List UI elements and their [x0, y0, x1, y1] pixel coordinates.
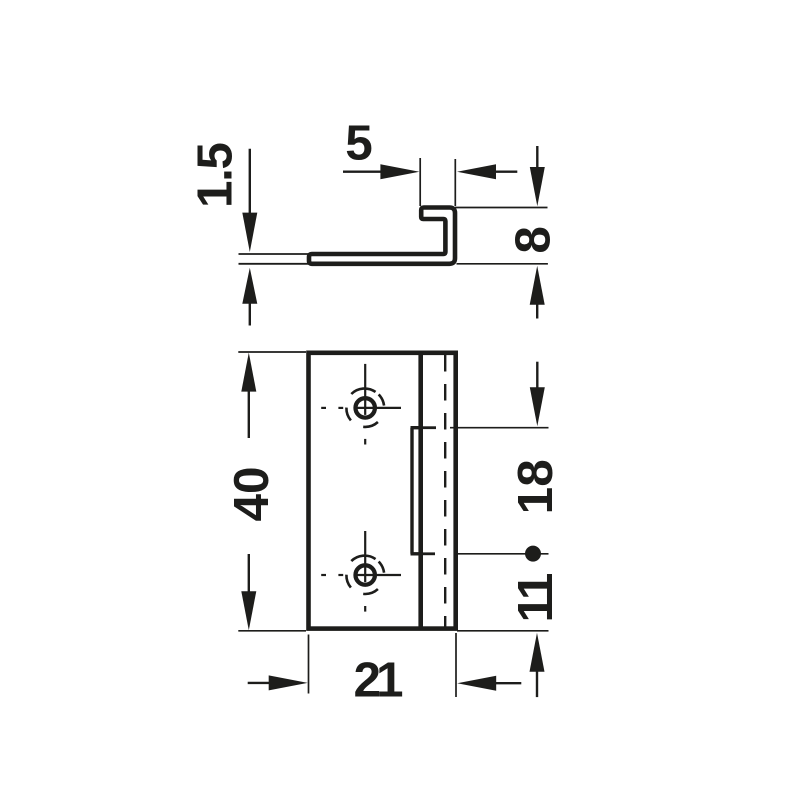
- hole H1 horizontal centerline: [321, 407, 401, 409]
- dimension 11 bottom extension line: [457, 630, 549, 632]
- dimension 5 left arrowhead: [380, 164, 419, 179]
- hook tab left edge: [410, 428, 413, 554]
- dimension 21 left shaft: [248, 682, 270, 684]
- dimension 18 top extension line: [422, 426, 437, 429]
- chain dimension dot: [525, 546, 541, 562]
- bend line (vertical thick): [418, 353, 423, 629]
- svg-text:1.5: 1.5: [188, 143, 243, 208]
- hole H1 countersink dashed arcs: [346, 389, 384, 427]
- svg-text:40: 40: [224, 466, 279, 521]
- svg-text:5: 5: [345, 116, 373, 171]
- dimension 5 left extension line: [419, 158, 421, 206]
- dimension 11 lower shaft: [536, 671, 538, 697]
- dimension 8 upper arrowhead: [530, 167, 545, 206]
- hole H1 vertical centerline: [364, 364, 366, 445]
- hook tab bottom edge: [411, 552, 422, 555]
- dimension 40 top shaft: [248, 391, 250, 438]
- dimension 40 top arrowhead: [241, 353, 256, 392]
- dimension 21 left arrowhead: [269, 675, 308, 690]
- dimension 8 bottom extension line: [457, 263, 548, 265]
- hidden edge dashed line: [444, 353, 446, 630]
- svg-text:21: 21: [353, 652, 403, 707]
- svg-text:11: 11: [508, 573, 563, 622]
- dimension 8 lower arrowhead: [530, 266, 545, 305]
- dimension 5 left shaft: [343, 170, 381, 172]
- hook tab top edge: [411, 426, 422, 429]
- dimension 5 right shaft: [495, 170, 517, 172]
- dimension 18/11 middle extension line: [422, 552, 436, 555]
- dimension 21 right shaft: [496, 682, 522, 684]
- dimension 40 top extension line: [238, 351, 306, 353]
- dimension 40 bottom arrowhead: [241, 591, 256, 630]
- dimension 1.5 lower arrowhead: [242, 268, 257, 304]
- dimension 5 right extension line: [454, 159, 456, 206]
- dimension 18 arrowhead: [530, 387, 545, 426]
- dimension 1.5 upper arrowhead: [242, 213, 257, 252]
- dimension 21 left extension line: [308, 635, 310, 694]
- hole H2 vertical centerline: [364, 531, 366, 612]
- hole H2 countersink dashed arcs: [346, 556, 384, 594]
- plate outline rectangle: [309, 353, 456, 629]
- hole H2 horizontal centerline: [321, 574, 401, 576]
- strip thin bottom surface line: [239, 263, 311, 265]
- dimension 8 lower shaft: [536, 304, 538, 319]
- dimension 1.5 lower shaft: [249, 303, 251, 326]
- dimension 8 top extension line: [455, 207, 548, 209]
- profile outline (bent sheet cross-section): [309, 208, 455, 264]
- svg-text:18: 18: [508, 459, 563, 514]
- strip thin top surface line: [239, 253, 311, 255]
- hole H1 circle: [356, 398, 375, 417]
- dimension 5 right arrowhead: [457, 164, 496, 179]
- dimension 8 upper shaft: [536, 146, 538, 168]
- dimension 21 right arrowhead: [457, 676, 496, 691]
- dimension 18 upper shaft: [536, 362, 538, 389]
- svg-text:8: 8: [506, 226, 561, 254]
- dimension 11 arrowhead: [530, 633, 545, 672]
- dimension 1.5 upper shaft: [249, 149, 251, 214]
- dimension 40 bottom extension line: [238, 630, 306, 632]
- dimension 21 right extension line: [455, 633, 457, 697]
- hole H2 circle: [356, 565, 375, 584]
- dimension 40 bottom shaft: [248, 554, 250, 592]
